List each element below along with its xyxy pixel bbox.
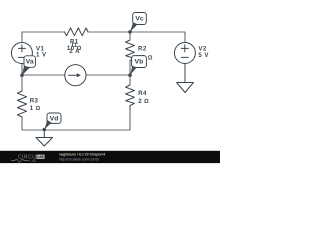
svg-text:LAB: LAB: [30, 159, 37, 163]
wire top-middle segment: [88, 31, 131, 33]
footer CircuitLab logo: [11, 154, 45, 163]
svg-text:R4: R4: [138, 90, 147, 97]
resistor R3: [17, 91, 26, 117]
junction node D dot: [43, 128, 47, 132]
node label Vd: [44, 113, 61, 129]
wire R3 bottom lead: [21, 117, 23, 130]
svg-text:2 A: 2 A: [69, 48, 80, 55]
svg-text:LAB: LAB: [37, 155, 44, 159]
node label Va: [22, 56, 35, 75]
node label Vb: [130, 56, 146, 76]
svg-text:5 V: 5 V: [198, 52, 209, 59]
voltage source V2: [174, 43, 195, 64]
ground at V2: [177, 83, 194, 93]
footer bar: [0, 151, 220, 163]
junction node B dot: [128, 73, 132, 77]
svg-text:Vd: Vd: [50, 115, 59, 122]
svg-text:Vb: Vb: [135, 59, 144, 66]
wire R2 top lead: [129, 32, 131, 40]
svg-text:Vc: Vc: [135, 16, 144, 23]
wire top-left segment: [22, 32, 65, 43]
resistor R1: [64, 28, 88, 36]
wire top-right segment: [129, 32, 185, 43]
wire middle-right segment: [86, 74, 131, 76]
svg-text:1 Ω: 1 Ω: [30, 105, 41, 112]
svg-text:2 Ω: 2 Ω: [138, 98, 149, 105]
resistor R2: [126, 40, 135, 61]
wire right column bottom lead: [22, 110, 130, 130]
voltage source V1: [11, 43, 32, 64]
resistor R4: [126, 85, 135, 110]
wire node B to R4 lead: [129, 75, 131, 85]
ground at bottom wire: [36, 138, 53, 147]
wire ground stub at bottom: [43, 129, 45, 137]
svg-text:R2: R2: [138, 46, 147, 53]
node label Vc: [130, 13, 146, 32]
wire R3 top lead: [21, 75, 23, 91]
wire V1 bottom to node A: [21, 64, 23, 77]
junction node A dot: [20, 73, 24, 77]
svg-text:1 V: 1 V: [36, 52, 47, 59]
wire middle-left segment: [21, 74, 65, 76]
current source I1: [65, 65, 86, 86]
junction node C dot: [128, 30, 132, 34]
svg-text:R3: R3: [30, 98, 39, 105]
svg-text:sagittaure / EJ 20 Chapter4: sagittaure / EJ 20 Chapter4: [59, 153, 105, 157]
wire R2 bottom to node B: [129, 61, 131, 77]
svg-text:http://circuitlab.com/c3x7fp: http://circuitlab.com/c3x7fp: [59, 157, 99, 161]
svg-text:Va: Va: [26, 59, 34, 66]
wire V2 to ground stub: [184, 64, 186, 83]
